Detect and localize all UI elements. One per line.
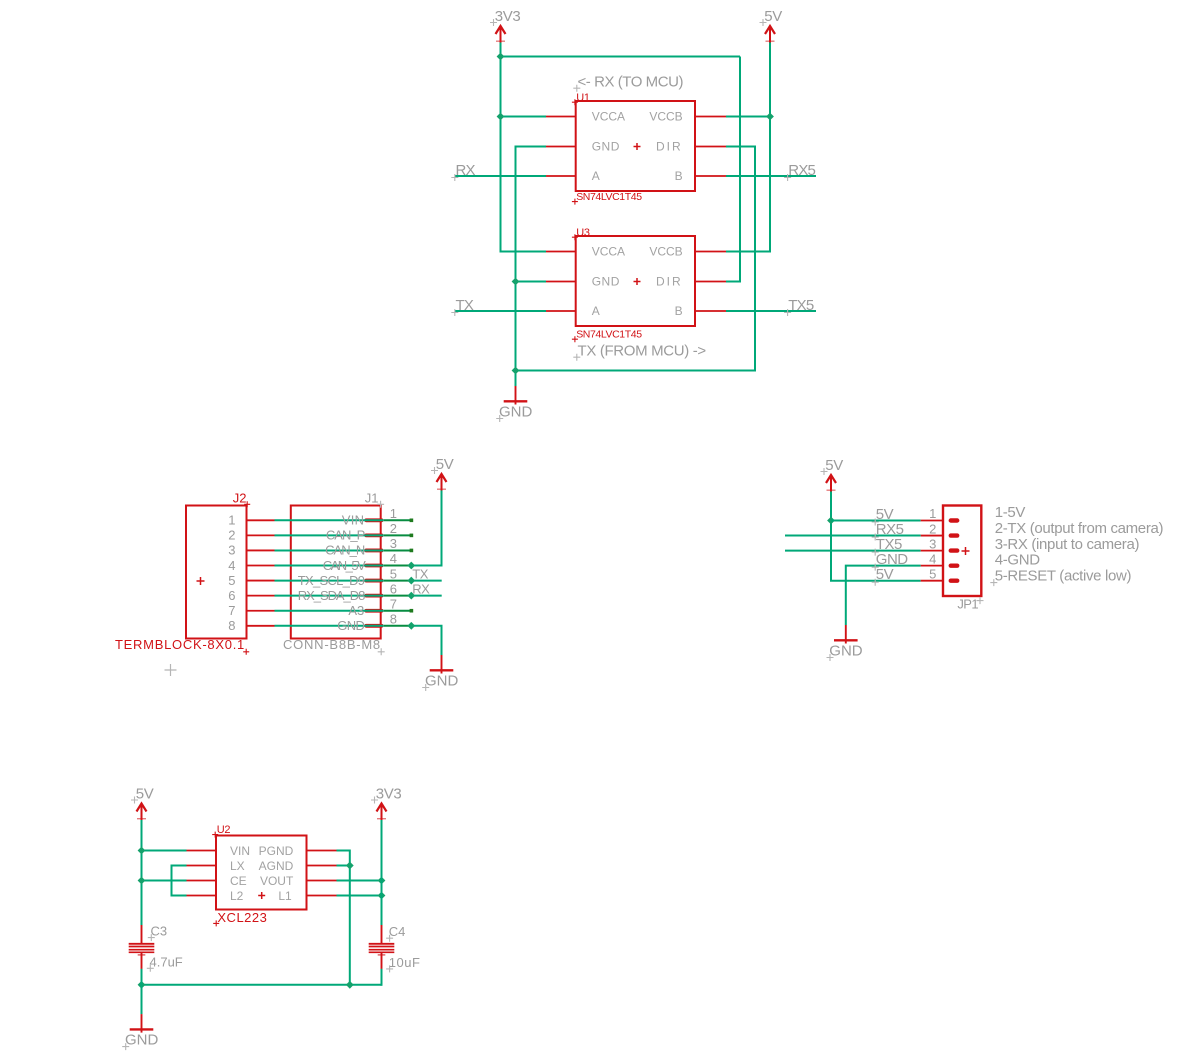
wire U2 VIN: [142, 850, 187, 852]
net labels at JP1: [872, 506, 909, 586]
ground (level shifters): [496, 386, 532, 422]
wire C3 to ground: [141, 969, 143, 1015]
wire net TX5: [726, 310, 816, 312]
svg-text:GND: GND: [499, 404, 533, 421]
wire RX stub: [411, 595, 441, 597]
svg-text:RX5: RX5: [788, 162, 815, 179]
svg-text:VCCA: VCCA: [592, 245, 625, 259]
wire U3 VCCA: [500, 251, 547, 253]
svg-text:5V: 5V: [764, 8, 782, 25]
svg-text:4.7uF: 4.7uF: [150, 954, 183, 969]
svg-text:5V: 5V: [136, 785, 154, 802]
wire GND vertical: [515, 147, 517, 387]
svg-text:L2: L2: [230, 889, 244, 903]
wire net TX5 (JP1): [785, 550, 921, 552]
wires J2 to J1 pins: [275, 519, 384, 521]
svg-text:GND: GND: [592, 275, 620, 289]
svg-text:6: 6: [228, 588, 235, 603]
svg-text:SN74LVC1T45: SN74LVC1T45: [576, 191, 642, 203]
junction AGND: [346, 862, 354, 870]
label C3: [148, 924, 167, 942]
svg-text:VCCB: VCCB: [649, 245, 682, 259]
connector J1 body: [291, 506, 381, 639]
wire C4 to rail: [381, 969, 383, 986]
wire ground rail (reg): [142, 984, 382, 986]
svg-text:5: 5: [228, 573, 235, 588]
label C4 value 10uF: [386, 955, 420, 973]
power 5V (regulator): [131, 785, 154, 820]
unconnected end pin2: [410, 534, 414, 538]
wire U2 PGND: [337, 851, 350, 986]
wire TX stub: [411, 580, 441, 582]
svg-text:CAN_P: CAN_P: [326, 528, 365, 543]
wire U2 AGND: [337, 865, 350, 867]
power 3V3 (top): [490, 8, 520, 43]
net label TX: [451, 297, 474, 316]
wire net RX: [455, 175, 546, 177]
svg-text:TERMBLOCK-8X0.1: TERMBLOCK-8X0.1: [115, 637, 245, 652]
power 3V3 (regulator): [371, 785, 401, 820]
svg-text:C3: C3: [151, 924, 168, 939]
svg-text:1: 1: [390, 506, 397, 521]
unconnected end pin1: [410, 519, 414, 523]
svg-text:GND: GND: [125, 1032, 159, 1049]
junction GND rail: [512, 367, 520, 375]
svg-text:GND: GND: [829, 643, 863, 660]
label U1 value SN74LVC1T45: [572, 191, 642, 205]
svg-text:5V: 5V: [436, 456, 454, 473]
svg-text:7: 7: [390, 596, 397, 611]
wire DIR1 vertical: [754, 147, 756, 372]
connector JP1 pin stubs: [921, 520, 944, 522]
power 5V (top): [760, 8, 783, 43]
svg-text:4: 4: [228, 558, 235, 573]
unconnected end pin3: [410, 549, 414, 553]
sheet origin cross: [165, 664, 177, 676]
wire 5V vertical (JP1): [830, 492, 832, 581]
label J2 value TERMBLOCK-8X0.1: [115, 637, 249, 655]
junction rail left: [138, 981, 146, 989]
net label RX5: [784, 162, 815, 181]
wire LX to L2: [172, 866, 187, 896]
connector JP1 pin bars: [951, 518, 957, 522]
wire GND bottom rail: [516, 370, 756, 372]
svg-text:2-TX (output from camera): 2-TX (output from camera): [995, 520, 1164, 537]
svg-text:B: B: [675, 304, 683, 318]
svg-text:TX5: TX5: [788, 297, 814, 314]
junction CAN_5V: [407, 562, 415, 570]
wire U1 VCCA: [500, 116, 547, 118]
svg-text:4: 4: [929, 551, 936, 566]
svg-text:5: 5: [929, 566, 936, 581]
junction U3 GND: [512, 278, 520, 286]
IC U2 pin stubs right: [306, 850, 337, 852]
svg-text:3: 3: [390, 536, 397, 551]
capacitor C3: [129, 925, 155, 969]
IC U2 pin labels: [230, 844, 294, 903]
wire U3 VCCB: [726, 251, 771, 253]
svg-text:CAN_N: CAN_N: [325, 543, 365, 558]
svg-text:TX: TX: [456, 297, 474, 314]
note JP1 pinout: [990, 504, 1163, 586]
svg-text:5: 5: [390, 566, 397, 581]
connector JP1 pin numbers: [929, 506, 936, 581]
svg-text:A: A: [592, 169, 600, 183]
svg-text:CE: CE: [230, 874, 247, 888]
svg-text:GND: GND: [425, 673, 459, 690]
power 5V (camera header): [821, 457, 844, 492]
svg-text:VIN: VIN: [230, 844, 250, 858]
svg-text:AGND: AGND: [259, 859, 294, 873]
svg-text:VCCA: VCCA: [592, 110, 625, 124]
IC U2 origin mark: [258, 892, 265, 899]
label U1: [572, 92, 590, 105]
label C3 value 4.7uF: [147, 954, 183, 972]
svg-text:SN74LVC1T45: SN74LVC1T45: [576, 329, 642, 341]
wire U1 VCCB: [726, 116, 771, 118]
junction U1 VCCB: [766, 113, 774, 121]
junction 5V (JP1): [827, 517, 835, 525]
connector J2 body: [186, 506, 247, 639]
note RX direction: [573, 74, 683, 92]
wire net RX5 (JP1): [785, 535, 921, 537]
svg-text:3: 3: [228, 543, 235, 558]
svg-text:RX: RX: [412, 582, 430, 597]
svg-text:VCCB: VCCB: [649, 110, 682, 124]
wire 5V vertical (reg): [141, 820, 143, 925]
junction U1 VCCA: [497, 113, 505, 121]
junction VOUT: [378, 877, 386, 885]
connector J2 pin stubs: [247, 519, 275, 521]
IC U1 origin mark: [634, 143, 641, 150]
wire 3V3 top rail: [501, 56, 741, 58]
IC U3 pin labels: [592, 245, 683, 319]
svg-text:10uF: 10uF: [389, 955, 421, 970]
svg-text:VIN: VIN: [342, 513, 365, 528]
junction rail PGND: [346, 981, 354, 989]
svg-text:3-RX (input to camera): 3-RX (input to camera): [995, 536, 1140, 553]
svg-text:GND: GND: [592, 140, 620, 154]
net label TX5: [784, 297, 814, 316]
wire DIR2 vertical: [739, 57, 741, 282]
svg-text:3V3: 3V3: [376, 785, 402, 802]
svg-text:RX_SDA_D8: RX_SDA_D8: [298, 588, 365, 603]
svg-text:U1: U1: [576, 92, 590, 104]
svg-text:CAN_5V: CAN_5V: [323, 558, 366, 573]
unconnected end pin7: [410, 609, 414, 613]
label J2: [233, 491, 250, 508]
svg-text:XCL223: XCL223: [217, 910, 267, 925]
label J1 value CONN-B8B-M8: [283, 637, 385, 655]
svg-text:JP1: JP1: [957, 597, 978, 612]
wire U1 GND: [515, 146, 547, 148]
connector J1 wire stubs: [384, 519, 412, 521]
connector JP1 origin mark: [962, 547, 970, 555]
wire 3V3 vertical: [500, 43, 502, 252]
svg-text:CONN-B8B-M8: CONN-B8B-M8: [283, 637, 381, 652]
svg-text:PGND: PGND: [259, 844, 294, 858]
connector JP1 body: [943, 506, 981, 597]
svg-text:DIR: DIR: [656, 275, 683, 289]
wire U1 DIR: [726, 146, 756, 148]
svg-text:J1: J1: [365, 491, 379, 506]
svg-text:3V3: 3V3: [495, 8, 521, 25]
wire 3V3 vertical (reg): [381, 820, 383, 925]
wire GND to ground: [411, 626, 441, 655]
junction VIN: [138, 847, 146, 855]
op U3 pin stubs right: [695, 251, 727, 253]
connector J2 origin mark: [197, 577, 205, 585]
connector J1 pin bars: [366, 518, 381, 522]
svg-text:A3: A3: [348, 603, 364, 618]
wire JP1 pin4 GND: [846, 566, 921, 625]
svg-text:8: 8: [390, 611, 397, 626]
svg-text:1-5V: 1-5V: [995, 504, 1026, 521]
op U3 pin stubs left: [546, 251, 577, 253]
junction TX: [407, 577, 415, 585]
net label RX: [451, 162, 475, 181]
svg-text:L1: L1: [278, 889, 292, 903]
power 5V (connector): [431, 456, 454, 491]
IC U3 origin mark: [634, 278, 641, 285]
capacitor C4: [369, 925, 395, 969]
svg-text:4: 4: [390, 551, 397, 566]
IC U3 SN74LVC1T45 body: [576, 236, 695, 326]
IC U2 XCL223 body: [216, 836, 307, 910]
junction GND (J1): [407, 622, 415, 630]
svg-text:J2: J2: [233, 491, 247, 506]
ground (camera header): [827, 625, 863, 661]
wire U2 L1: [337, 895, 382, 897]
wire 5V vertical: [769, 43, 771, 252]
IC U2 pin stubs left: [187, 850, 217, 852]
label U3: [572, 227, 590, 240]
label J1: [365, 491, 384, 508]
svg-text:2: 2: [390, 521, 397, 536]
wire JP1 pin1 5V: [831, 520, 921, 522]
svg-text:GND: GND: [337, 618, 364, 633]
connector J1 pin numbers: [390, 506, 397, 626]
svg-text:5V: 5V: [876, 566, 894, 583]
svg-text:VOUT: VOUT: [260, 874, 294, 888]
svg-text:<- RX (TO MCU): <- RX (TO MCU): [578, 74, 684, 91]
label C4: [386, 924, 405, 942]
connector J1 net names: [298, 513, 366, 633]
svg-text:DIR: DIR: [656, 140, 683, 154]
svg-text:TX: TX: [412, 567, 428, 582]
svg-text:U2: U2: [217, 824, 231, 836]
svg-text:1: 1: [929, 506, 936, 521]
svg-text:C4: C4: [389, 924, 406, 939]
wire JP1 pin5 5V: [831, 580, 921, 581]
svg-text:2: 2: [228, 528, 235, 543]
svg-text:7: 7: [228, 603, 235, 618]
svg-text:RX: RX: [456, 162, 476, 179]
junction 3V3 top rail: [497, 53, 505, 61]
svg-text:LX: LX: [230, 859, 245, 873]
IC U1 SN74LVC1T45 body: [576, 101, 695, 191]
label U2 value XCL223: [213, 910, 267, 927]
connector J2 pin numbers: [228, 513, 235, 633]
label U3 value SN74LVC1T45: [572, 329, 642, 343]
svg-text:TX (FROM MCU) ->: TX (FROM MCU) ->: [578, 343, 707, 360]
svg-text:3: 3: [929, 536, 936, 551]
junction L1: [378, 892, 386, 900]
wire net RX5: [726, 175, 816, 177]
svg-text:5V: 5V: [825, 457, 843, 474]
svg-text:4-GND: 4-GND: [995, 552, 1041, 569]
wire U2 VOUT: [337, 880, 382, 882]
ground (regulator): [122, 1014, 158, 1050]
label JP1: [957, 597, 983, 612]
svg-text:6: 6: [390, 581, 397, 596]
junction RX: [407, 592, 415, 600]
op U1 pin stubs right: [695, 116, 727, 118]
IC U1 pin labels: [592, 110, 683, 184]
wire U3 GND: [515, 281, 547, 283]
label U2: [212, 824, 230, 837]
svg-text:A: A: [592, 304, 600, 318]
svg-text:B: B: [675, 169, 683, 183]
wire CAN_5V to 5V: [411, 491, 441, 566]
svg-text:TX_SCL_D9: TX_SCL_D9: [298, 573, 365, 588]
wire net TX: [455, 310, 546, 312]
svg-text:2: 2: [929, 521, 936, 536]
svg-text:U3: U3: [576, 227, 590, 239]
junction CE: [138, 877, 146, 885]
svg-text:8: 8: [228, 618, 235, 633]
wire U3 DIR stub: [726, 281, 741, 283]
svg-text:1: 1: [228, 513, 235, 528]
op U1 pin stubs left: [546, 116, 577, 118]
wire U2 CE: [142, 880, 187, 882]
note TX direction: [573, 343, 706, 361]
ground (connector): [422, 655, 458, 691]
svg-text:5-RESET (active low): 5-RESET (active low): [995, 568, 1132, 585]
